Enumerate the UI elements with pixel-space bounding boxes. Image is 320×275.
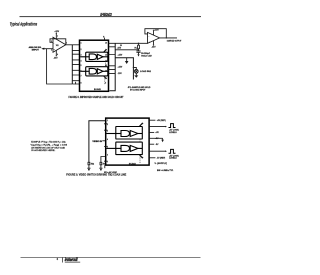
- svg-text:V+: V+: [103, 36, 105, 38]
- svg-text:INPUT: INPUT: [32, 50, 40, 52]
- svg-text:+: +: [54, 49, 55, 51]
- svg-text:-15V: -15V: [53, 57, 58, 59]
- svg-text:V- (SUPPLY): V- (SUPPLY): [155, 163, 168, 165]
- svg-text:SAMPLED OUTPUT: SAMPLED OUTPUT: [167, 39, 182, 42]
- svg-text:EXAMPLE: IF RON = 75Ω AND RL =: EXAMPLE: IF RON = 75Ω AND RL = 1kΩ,: [31, 141, 66, 144]
- svg-text:VIDEO IN: VIDEO IN: [92, 141, 102, 143]
- svg-text:+15V: +15V: [118, 55, 123, 57]
- svg-text:IS ACHIEVED HERE.: IS ACHIEVED HERE.: [31, 149, 55, 152]
- svg-text:LEVELS: LEVELS: [169, 158, 177, 160]
- svg-text:BW = 4.5MHz TYP.: BW = 4.5MHz TYP.: [157, 169, 174, 172]
- svg-text:FIGURE 8. IMPROVED SAMPLE AND: FIGURE 8. IMPROVED SAMPLE AND HOLD CIRCU…: [69, 95, 124, 99]
- svg-text:16: 16: [120, 45, 122, 47]
- svg-text:+5V (REF): +5V (REF): [157, 120, 166, 122]
- svg-text:ANALOG SIG.: ANALOG SIG.: [29, 46, 42, 49]
- svg-text:BY LOGIC INPUT: BY LOGIC INPUT: [130, 90, 146, 92]
- svg-text:-15V: -15V: [118, 73, 123, 75]
- svg-text:13: 13: [105, 65, 107, 67]
- svg-text:IH-5043: IH-5043: [129, 162, 136, 165]
- svg-text:15: 15: [105, 54, 107, 56]
- svg-text:+15V: +15V: [154, 30, 159, 32]
- svg-text:+15V: +15V: [54, 31, 59, 33]
- svg-text:+: +: [149, 42, 150, 44]
- svg-text:Typical Applications: Typical Applications: [10, 22, 38, 27]
- svg-text:FIGURE 9. VIDEO SWITCH DRIVING: FIGURE 9. VIDEO SWITCH DRIVING 75Ω COAX …: [66, 172, 126, 176]
- svg-text:IH-5043: IH-5043: [94, 88, 101, 91]
- svg-text:16: 16: [105, 43, 107, 45]
- svg-text:LEVELS: LEVELS: [169, 132, 177, 134]
- svg-text:-15V: -15V: [151, 46, 156, 48]
- svg-text:AN INSERTION LOSS OF ONLY 0.6d: AN INSERTION LOSS OF ONLY 0.6dB: [31, 146, 65, 149]
- svg-text:75Ω: 75Ω: [91, 163, 95, 165]
- svg-text:-5V (REF): -5V (REF): [157, 158, 166, 160]
- svg-text:HOLD CAP.: HOLD CAP.: [141, 54, 152, 57]
- svg-text:12: 12: [105, 71, 107, 73]
- svg-text:-15V: -15V: [117, 48, 122, 50]
- svg-text:+15V: +15V: [118, 67, 123, 69]
- svg-text:intersil: intersil: [65, 257, 79, 262]
- svg-text:LOAD 50Ω: LOAD 50Ω: [140, 70, 151, 73]
